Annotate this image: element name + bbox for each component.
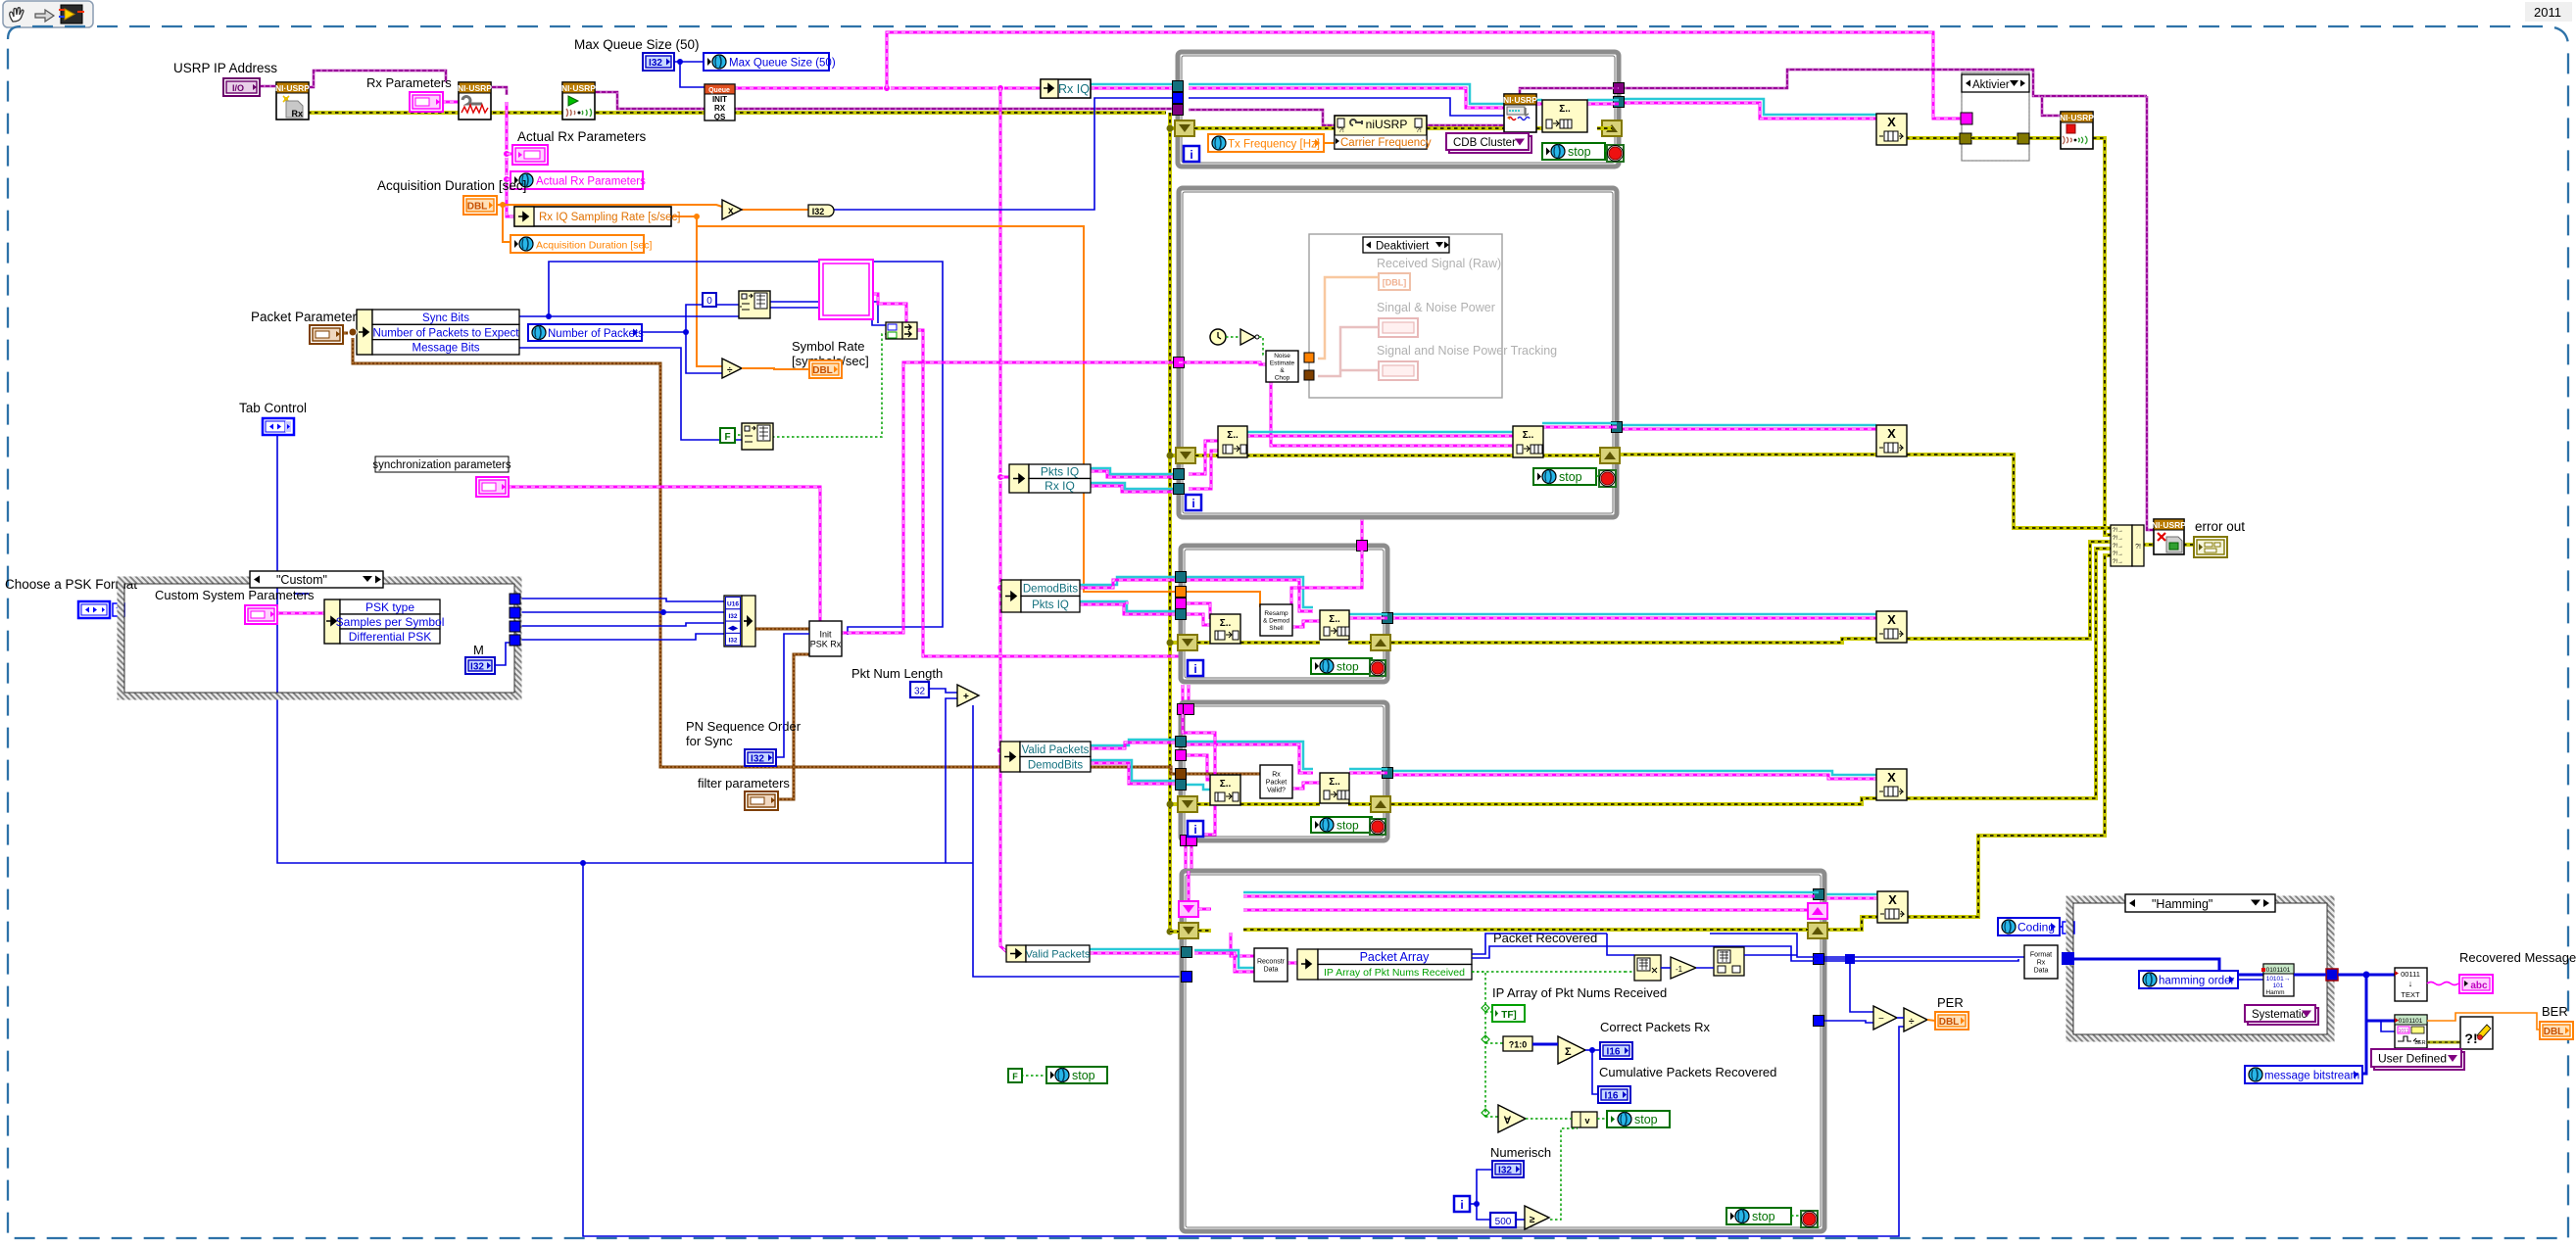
compound build node xyxy=(886,322,902,339)
control PN Sequence Order I32 xyxy=(745,749,776,766)
wire: pink string to indicator xyxy=(2427,982,2458,985)
indicator TF array xyxy=(1492,1005,1525,1022)
wire: blue I32 to loop1 xyxy=(831,98,1178,210)
while loop 1 frame xyxy=(1178,52,1619,167)
svg-text:I32: I32 xyxy=(1498,1166,1512,1176)
niUSRP open Rx session node xyxy=(276,82,309,120)
wire: olive error into loop1 dequeue xyxy=(1170,126,1177,130)
wire: olive X c to merge xyxy=(1907,542,2111,639)
case structure label Custom xyxy=(250,571,383,588)
wire: purple USRP session top-left chain xyxy=(258,85,276,88)
svg-text:≥: ≥ xyxy=(1530,1215,1535,1225)
svg-text:filter parameters: filter parameters xyxy=(698,776,790,791)
svg-text:Format: Format xyxy=(2030,952,2052,959)
global Acquisition Duration [sec] xyxy=(510,235,644,253)
disabled indicator cluster 1 xyxy=(1379,318,1418,337)
wire: green dotted false-insert to compound xyxy=(733,434,742,436)
svg-text:Reconstr: Reconstr xyxy=(1257,959,1286,966)
case right border tunnels xyxy=(510,594,520,604)
merge errors node xyxy=(2111,525,2132,566)
svg-text:U16: U16 xyxy=(727,601,739,608)
wire: blue 32 const to plus xyxy=(929,689,957,693)
svg-text:DBL: DBL xyxy=(467,202,488,213)
control Max Queue Size I32 xyxy=(643,53,674,71)
loop1 iteration terminal xyxy=(1184,146,1199,162)
svg-text:Carrier Frequency: Carrier Frequency xyxy=(1340,137,1432,149)
loop2 stop button xyxy=(1599,470,1616,487)
svg-text:message bitstream: message bitstream xyxy=(2264,1071,2359,1082)
svg-text:Σ: Σ xyxy=(1565,1046,1572,1058)
svg-text:X: X xyxy=(1887,770,1896,785)
disabled pale wires xyxy=(1318,277,1379,359)
release queue X node d xyxy=(1876,769,1907,800)
wire: brown packet parameters cluster run xyxy=(340,332,348,335)
indicator Numerisch I32 xyxy=(1492,1161,1524,1177)
svg-text:Data: Data xyxy=(1264,967,1279,974)
svg-text:F: F xyxy=(724,432,730,443)
loop3 iteration terminal xyxy=(1188,660,1203,676)
svg-text:?!: ?! xyxy=(2135,544,2141,551)
svg-text:x: x xyxy=(728,206,734,216)
global Tx Frequency [Hz] xyxy=(1208,134,1324,152)
wire: cyan+magenta pair DemodBits/PktsIQ to loop3 xyxy=(1080,577,1179,585)
wire: olive X e to merge xyxy=(1907,555,2111,917)
svg-text:i: i xyxy=(1193,662,1196,676)
svg-text:÷: ÷ xyxy=(1909,1017,1915,1028)
wire: blue number of packets net xyxy=(641,331,686,333)
svg-text:0101101: 0101101 xyxy=(2266,967,2291,974)
loop5 right tunnels xyxy=(1814,889,1824,900)
wire: orange sampling rate long run to loop3 xyxy=(670,216,697,217)
svg-text:DBL: DBL xyxy=(812,365,833,376)
svg-text:BER: BER xyxy=(2414,1040,2425,1046)
svg-text:+: + xyxy=(963,692,969,702)
Init PSK Rx subVI xyxy=(809,621,842,656)
svg-text:?!→: ?!→ xyxy=(2113,544,2123,550)
case selector terminal ? xyxy=(113,603,124,616)
wire: olive loop2 to X b xyxy=(1617,453,1876,456)
Hamming frame right tunnel xyxy=(2326,969,2338,981)
loop1 stop button xyxy=(1607,145,1624,162)
svg-text:TF]: TF] xyxy=(1501,1010,1517,1021)
release queue X node a xyxy=(1876,114,1907,145)
svg-text:abc: abc xyxy=(2470,981,2488,991)
svg-text:DBL: DBL xyxy=(2544,1027,2564,1037)
svg-text:IP Array of Pkt Nums Received: IP Array of Pkt Nums Received xyxy=(1492,985,1667,1000)
loop4 right tunnel xyxy=(1383,768,1393,779)
wire: blue packet recovered to Format Rx Data xyxy=(1824,956,2024,958)
loop5 stop button xyxy=(1801,1211,1818,1227)
svg-text:?!→: ?!→ xyxy=(2113,536,2123,542)
toolbar run (VI) icon xyxy=(61,5,82,24)
svg-text:v: v xyxy=(1584,1116,1589,1126)
Resamp & Demod Shell subVI xyxy=(1260,604,1292,636)
control Acquisition Duration DBL xyxy=(463,196,497,215)
svg-text:DemodBits: DemodBits xyxy=(1028,759,1083,771)
svg-text:i: i xyxy=(1460,1198,1463,1212)
indicator BER DBL xyxy=(2540,1022,2573,1039)
svg-text:?1:0: ?1:0 xyxy=(1509,1040,1528,1050)
svg-text:?!→: ?!→ xyxy=(2113,551,2123,557)
svg-text:USRP IP Address: USRP IP Address xyxy=(173,61,277,75)
svg-text:0: 0 xyxy=(706,296,712,307)
wire: olive X b to merge xyxy=(1907,455,2111,528)
svg-text:Number of Packets to Expect: Number of Packets to Expect xyxy=(373,327,520,339)
wire: olive merge to error-close to error out xyxy=(2142,543,2154,547)
svg-text:CDB Cluster: CDB Cluster xyxy=(1453,137,1516,149)
wire: cyan+magenta pair ValidPackets/DemodBits to loop4 xyxy=(1091,740,1179,745)
decrement node xyxy=(1671,957,1696,979)
loop2 left tunnels xyxy=(1174,358,1185,368)
svg-text:I32: I32 xyxy=(470,662,484,673)
constant 32 xyxy=(910,682,929,697)
toolbar hand tool icon xyxy=(10,8,24,22)
niUSRP property node (carrier frequency) xyxy=(1335,116,1427,149)
wire: blue pkt-num + output vertical xyxy=(973,705,1182,977)
year label 2011 xyxy=(2525,2,2572,22)
read local Valid Packets (bottom) xyxy=(1006,945,1026,962)
wire: olive X d to merge xyxy=(1907,549,2111,798)
svg-text:PSK type: PSK type xyxy=(365,600,414,614)
svg-text:Σ..: Σ.. xyxy=(1220,779,1232,790)
svg-text:I32: I32 xyxy=(812,207,825,216)
wire: magenta Rx Parameters to configure xyxy=(442,101,459,104)
insert into array node 1 xyxy=(739,291,770,318)
control filter parameters cluster xyxy=(745,791,778,810)
bits to text node xyxy=(2395,968,2427,1001)
loop3 inner wires xyxy=(1197,641,1210,645)
svg-text:Numerisch: Numerisch xyxy=(1490,1145,1551,1160)
svg-text:NI·USRP: NI·USRP xyxy=(1503,95,1537,105)
svg-text:Rx IQ: Rx IQ xyxy=(1058,82,1090,96)
sum array node xyxy=(1558,1036,1585,1064)
niUSRP configure signal node xyxy=(459,82,491,120)
wire: olive error open->configure->initiate xyxy=(308,111,1166,115)
svg-text:NI·USRP: NI·USRP xyxy=(561,83,596,93)
diagram disable structure Aktivier xyxy=(1962,72,2029,161)
svg-text:Custom System Parameters: Custom System Parameters xyxy=(155,588,315,602)
svg-text:i: i xyxy=(1191,497,1194,510)
svg-text:synchronization parameters: synchronization parameters xyxy=(372,459,511,471)
svg-text:0101101: 0101101 xyxy=(2399,1018,2423,1025)
loop1 enqueue node xyxy=(1542,100,1587,132)
svg-text:500: 500 xyxy=(1495,1217,1512,1227)
empty cluster constant xyxy=(819,260,873,319)
svg-text:M: M xyxy=(473,643,484,657)
insert into array node 2 xyxy=(742,423,773,450)
Aktivier pink tunnel xyxy=(1961,113,1972,124)
loop2 inner wires xyxy=(1195,454,1218,457)
svg-text:I32: I32 xyxy=(649,58,662,69)
svg-text:BER: BER xyxy=(2542,1004,2568,1019)
wire: blue to subtract/divide PER xyxy=(1824,958,1850,960)
svg-text:Message Bits: Message Bits xyxy=(412,343,479,355)
svg-text:Rx Parameters: Rx Parameters xyxy=(366,75,452,90)
indicator PER DBL xyxy=(1935,1012,1968,1030)
niUSRP abort node (top right) xyxy=(2061,112,2093,149)
svg-text:"Custom": "Custom" xyxy=(276,573,327,587)
svg-text:Symbol Rate: Symbol Rate xyxy=(792,339,864,354)
svg-text:I32: I32 xyxy=(728,637,737,644)
wire: purple session initiate to loop1 xyxy=(594,92,1178,109)
svg-text:INIT: INIT xyxy=(712,95,727,104)
svg-text:NI·USRP: NI·USRP xyxy=(2152,520,2186,530)
transpose array node xyxy=(1634,955,1661,981)
label synchronization parameters xyxy=(375,456,509,472)
svg-text:stop: stop xyxy=(1568,145,1591,159)
loop4 stop global xyxy=(1311,817,1372,833)
wire: blue inside Hamming to decoder xyxy=(2074,959,2263,975)
while loop 2 frame xyxy=(1179,188,1617,517)
svg-text:stop: stop xyxy=(1072,1069,1095,1082)
wire: pair loop1 to release X top xyxy=(1619,99,1876,115)
loop4 left tunnels xyxy=(1176,737,1187,747)
subtract node xyxy=(1873,1006,1897,1030)
dropdown CDB Cluster xyxy=(1449,136,1531,153)
svg-text:?!→: ?!→ xyxy=(2113,559,2123,565)
wire: purple vertical to error close node xyxy=(2147,96,2154,530)
clock icon xyxy=(1210,329,1226,345)
svg-text:Max Queue Size (50): Max Queue Size (50) xyxy=(729,58,836,70)
svg-text:Acquisition Duration [sec]: Acquisition Duration [sec] xyxy=(536,240,653,252)
wire: blue long horizontal to vertical x962 xyxy=(549,262,943,635)
wire greater-equal to or xyxy=(1550,1128,1578,1220)
svg-text:Correct Packets Rx: Correct Packets Rx xyxy=(1600,1020,1710,1034)
svg-text:stop: stop xyxy=(1337,660,1359,674)
compound or node xyxy=(1572,1112,1597,1127)
svg-text:niUSRP: niUSRP xyxy=(1366,118,1408,131)
svg-text:Valid Packets: Valid Packets xyxy=(1026,949,1091,961)
loop2 dequeue border glyph xyxy=(1176,448,1195,463)
Noise Estimate and Chop subVI xyxy=(1266,351,1298,382)
svg-text:Σ..: Σ.. xyxy=(1559,104,1571,115)
loop1 inner wires xyxy=(1189,84,1504,104)
wire: blue packet recovered double line xyxy=(1472,934,1607,954)
svg-text:Packet: Packet xyxy=(1266,780,1287,787)
svg-text:Recovered Message: Recovered Message xyxy=(2459,950,2576,965)
dropdown Systematic xyxy=(2248,1008,2318,1025)
svg-text:Rx IQ: Rx IQ xyxy=(1045,479,1075,493)
Hamming frame left tunnel xyxy=(2062,952,2074,965)
global stop (write, loop5) xyxy=(1607,1111,1670,1127)
svg-text:I/O: I/O xyxy=(232,83,244,93)
loop4 bottom tunnels xyxy=(1181,836,1191,846)
svg-text:Acquisition Duration [sec]: Acquisition Duration [sec] xyxy=(377,178,526,193)
svg-text:X: X xyxy=(1887,426,1896,441)
loop2 iteration terminal xyxy=(1186,495,1201,510)
BER measure node xyxy=(2395,1015,2427,1048)
loop4 dequeue node xyxy=(1210,775,1240,805)
svg-text:User Defined: User Defined xyxy=(2378,1052,2447,1066)
read local DemodBits / Pkts IQ xyxy=(1001,580,1021,612)
svg-text:∀: ∀ xyxy=(1503,1116,1512,1126)
svg-text:32: 32 xyxy=(914,687,926,697)
read local Pkts IQ / Rx IQ xyxy=(1009,464,1029,493)
loop2 right tunnels xyxy=(1612,422,1623,433)
svg-text:Number of Packets: Number of Packets xyxy=(548,328,644,340)
svg-text:X: X xyxy=(1887,612,1896,627)
loop4 inner wires xyxy=(1197,802,1210,806)
svg-text:Tx Frequency [Hz]: Tx Frequency [Hz] xyxy=(1228,139,1320,151)
svg-text:I32: I32 xyxy=(728,613,737,620)
svg-text:Coding: Coding xyxy=(2017,921,2055,934)
release queue X node c xyxy=(1876,611,1907,643)
global Number of Packets xyxy=(528,324,642,341)
loop5 iteration terminal xyxy=(1454,1196,1470,1212)
svg-text:÷: ÷ xyxy=(727,365,733,376)
wire: brown bundle to Init PSK Rx xyxy=(753,628,809,631)
wire: green IP array chain xyxy=(1472,972,1485,1117)
svg-text:PER: PER xyxy=(1937,995,1964,1010)
wire: olive bottom loop to X e xyxy=(1826,917,1877,930)
wire: blue decoder output xyxy=(2294,974,2326,977)
release queue X node b xyxy=(1876,425,1907,456)
wire: magenta custom system parameters xyxy=(275,612,324,615)
wire: blue vertical to BER node xyxy=(2361,975,2366,1074)
dropdown User Defined xyxy=(2374,1052,2464,1070)
svg-text:Actual Rx Parameters: Actual Rx Parameters xyxy=(517,129,647,144)
toolbar tab xyxy=(3,1,93,27)
node Rx IQ Sampling Rate xyxy=(514,207,671,226)
wire: cyan+magenta pair Valid Packets to bottom loop xyxy=(1090,948,1184,951)
wire: olive loop4 to X d xyxy=(1391,798,1876,804)
svg-text:1011: 1011 xyxy=(2399,1029,2409,1034)
loop3 right tunnel xyxy=(1383,613,1393,624)
divide node xyxy=(722,359,742,378)
svg-text:Data: Data xyxy=(2034,968,2049,975)
wire: magenta compound node output vertical to loop3 xyxy=(917,330,1179,656)
wire: orange multiply to I32 conversion xyxy=(742,209,808,211)
svg-text:00111: 00111 xyxy=(2401,970,2420,979)
case structure label Hamming xyxy=(2125,894,2275,912)
svg-text:[DBL]: [DBL] xyxy=(1383,278,1407,288)
svg-text:−: − xyxy=(1878,1014,1884,1025)
svg-text:↓: ↓ xyxy=(2408,979,2413,988)
wire: pair loop4 to release X d xyxy=(1391,771,1876,775)
loop4 stop button xyxy=(1370,819,1385,835)
svg-text:Samples per Symbol: Samples per Symbol xyxy=(336,615,445,629)
wire: blue sync bits run xyxy=(519,315,739,317)
toolbar arrow icon xyxy=(35,10,54,22)
svg-text:Σ..: Σ.. xyxy=(1329,777,1340,788)
wire: magenta into loop3 lower tunnel xyxy=(1126,601,1129,604)
indicator Cumulative Packets I16 xyxy=(1598,1086,1630,1103)
svg-text:◀▶: ◀▶ xyxy=(727,625,739,632)
wire: olive error vertical main column xyxy=(1168,113,1172,932)
svg-text:NI·USRP: NI·USRP xyxy=(458,83,492,93)
svg-text:X: X xyxy=(1888,892,1897,907)
while loop 4 frame xyxy=(1181,702,1387,840)
wire: magenta verticals loop2->loop3 xyxy=(1361,517,1364,546)
control synchronization parameters cluster xyxy=(476,477,509,497)
wires around index array xyxy=(1661,967,1671,969)
loop3 left tunnels xyxy=(1176,572,1187,583)
loop5 stop global (bottom right) xyxy=(1726,1208,1791,1224)
wire: magenta Init PSK Rx output to loop2 xyxy=(840,362,1179,633)
svg-text:TEXT: TEXT xyxy=(2401,990,2420,999)
svg-text:Rx: Rx xyxy=(291,109,303,119)
wire: blue PSK case outputs to bundle node xyxy=(520,599,724,601)
Rx Packet Valid subVI xyxy=(1260,765,1292,798)
loop3 dequeue border glyph xyxy=(1178,635,1197,650)
svg-text:stop: stop xyxy=(1559,470,1582,484)
wire: pair bottom loop to release X e xyxy=(1826,893,1877,896)
wire: blue max queue size xyxy=(673,61,704,63)
svg-text:hamming order: hamming order xyxy=(2159,976,2235,987)
wire: olive dotted BER to check node xyxy=(2427,1041,2460,1044)
svg-text:Σ..: Σ.. xyxy=(1220,618,1232,629)
loop4 top tunnels xyxy=(1178,704,1189,715)
loop2 enqueue node xyxy=(1513,426,1543,457)
svg-text:?!: ?! xyxy=(1416,127,1422,134)
svg-text:Chop: Chop xyxy=(1275,375,1290,382)
global message bitstream xyxy=(2245,1066,2362,1083)
wire: olive loop3 to X c xyxy=(1391,639,1876,643)
loop1 stop global xyxy=(1542,143,1605,160)
indicator error out xyxy=(2194,537,2227,557)
svg-text:Pkt Num Length: Pkt Num Length xyxy=(851,666,943,681)
svg-text:&: & xyxy=(1280,367,1285,374)
loop2 up-arrow border glyph xyxy=(1600,448,1620,463)
svg-text:Received Signal (Raw): Received Signal (Raw) xyxy=(1377,257,1501,270)
svg-text:2011: 2011 xyxy=(2534,5,2561,20)
global Coding xyxy=(1998,918,2060,935)
svg-text:101: 101 xyxy=(2273,982,2284,989)
release queue X node e xyxy=(1877,891,1908,923)
bundle psk config node xyxy=(724,596,742,647)
greater-equal node xyxy=(1525,1206,1549,1229)
loop4 enqueue node xyxy=(1320,773,1349,803)
global stop (write, lower left) xyxy=(1046,1067,1107,1083)
svg-text:I16: I16 xyxy=(1605,1091,1619,1102)
loop5 left tunnels xyxy=(1182,947,1192,958)
wire: blue message bits run xyxy=(519,348,742,440)
svg-text:Rx: Rx xyxy=(1272,772,1281,779)
svg-text:Σ..: Σ.. xyxy=(1227,430,1239,441)
svg-text:Resamp: Resamp xyxy=(1264,610,1288,617)
wire: pair loop2 to release X b xyxy=(1617,424,1876,427)
svg-text:F: F xyxy=(1012,1072,1018,1081)
select ?1:0 node xyxy=(1503,1036,1532,1051)
indicator Symbol Rate DBL xyxy=(809,360,842,378)
svg-text:Aktivier: Aktivier xyxy=(1972,79,2010,91)
wire: orange BER xyxy=(2427,1013,2542,1030)
loop3 stop global xyxy=(1311,658,1372,674)
loop3 stop button xyxy=(1370,660,1385,676)
not gate xyxy=(1240,329,1255,345)
svg-text:"Hamming": "Hamming" xyxy=(2152,897,2212,911)
loop4 iteration terminal xyxy=(1188,821,1203,837)
svg-text:Pkts IQ: Pkts IQ xyxy=(1032,599,1069,611)
wire: olive stubs into loop dequeues xyxy=(1170,454,1177,457)
svg-text:QS: QS xyxy=(714,113,726,121)
wire: blue bottom long run to PER divide xyxy=(583,863,1904,1236)
svg-text:Systematic: Systematic xyxy=(2252,1009,2307,1021)
svg-text:stop: stop xyxy=(1634,1113,1658,1126)
global Actual Rx Parameters xyxy=(510,171,643,189)
wire: magenta verticals loop3->loop4 xyxy=(1182,685,1185,709)
svg-text:Signal and Noise Power Trackin: Signal and Noise Power Tracking xyxy=(1377,344,1557,358)
wire: pair loop3 to release X c xyxy=(1391,613,1876,616)
constant F false 2 xyxy=(1008,1069,1022,1082)
disabled indicator DBL array xyxy=(1379,273,1410,290)
loop3 enqueue node xyxy=(1320,610,1349,640)
control Rx Parameters cluster xyxy=(410,92,443,112)
svg-text:Rx: Rx xyxy=(2037,960,2046,967)
loop1 left tunnels xyxy=(1173,81,1184,92)
loop3 dequeue node xyxy=(1210,614,1240,644)
constant M I32 xyxy=(465,657,495,674)
